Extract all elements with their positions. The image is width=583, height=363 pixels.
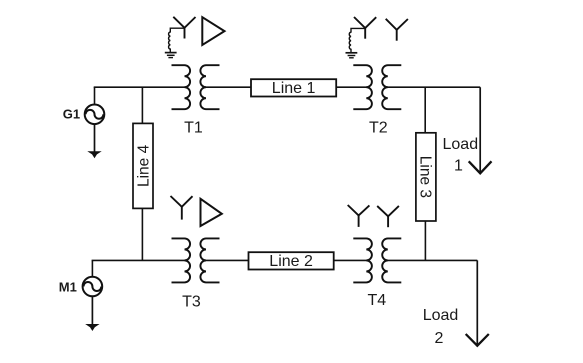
load 2 drop wire bbox=[476, 260, 478, 344]
wire M1 to ground arrow bbox=[91, 296, 93, 325]
line box Line 1 bbox=[251, 79, 336, 97]
node junction Line 4 top bbox=[141, 87, 143, 123]
svg-text:2: 2 bbox=[435, 330, 444, 347]
load 2 arrow bbox=[466, 334, 489, 346]
ground arrow below M1 bbox=[85, 324, 99, 331]
node junction Line 3 top bbox=[424, 87, 426, 133]
generator G1 bbox=[85, 105, 105, 125]
svg-text:M1: M1 bbox=[59, 279, 77, 294]
svg-text:T2: T2 bbox=[369, 120, 388, 137]
line box Line 3 bbox=[416, 133, 436, 221]
wye symbol above T4 (left) bbox=[348, 205, 370, 227]
wire T2 to Load 1 corner bbox=[386, 86, 480, 88]
grounded wye symbol above T2 bbox=[354, 17, 376, 39]
grounding coil above T1 bbox=[169, 28, 185, 52]
wire bottom bus M1 to T3 bbox=[92, 259, 187, 261]
svg-text:Load: Load bbox=[423, 307, 459, 324]
svg-text:G1: G1 bbox=[63, 106, 80, 121]
wire T4 to Load 2 corner bbox=[386, 259, 477, 261]
wye symbol above T4 (right) bbox=[377, 206, 399, 227]
svg-text:T3: T3 bbox=[182, 294, 201, 311]
svg-text:Line 3: Line 3 bbox=[417, 156, 434, 198]
wire Line 2 to T4 bbox=[334, 259, 368, 261]
svg-text:T1: T1 bbox=[184, 120, 203, 137]
earth ground above T1 bbox=[165, 53, 177, 58]
delta symbol above T1 bbox=[202, 17, 224, 45]
svg-text:Line 4: Line 4 bbox=[135, 144, 152, 187]
load 1 arrow bbox=[469, 161, 492, 173]
wire G1 riser to top bus bbox=[94, 87, 96, 104]
wire top bus G1 to T1 bbox=[94, 86, 187, 88]
wye symbol above T2 (right) bbox=[386, 19, 408, 41]
wire G1 to ground arrow bbox=[94, 124, 96, 153]
svg-text:T4: T4 bbox=[367, 292, 386, 309]
wire T3 to Line 2 bbox=[205, 259, 249, 261]
transformer T1 bbox=[172, 65, 220, 109]
motor M1 bbox=[83, 277, 103, 297]
svg-text:Line 1: Line 1 bbox=[272, 80, 316, 97]
svg-text:Line 2: Line 2 bbox=[269, 253, 313, 270]
grounded wye symbol above T1 bbox=[173, 17, 195, 39]
wire Line 1 to T2 bbox=[336, 86, 368, 88]
wire M1 riser to bottom bus bbox=[91, 260, 93, 276]
load 1 drop wire bbox=[479, 87, 481, 172]
wye symbol above T3 bbox=[171, 196, 193, 220]
wire Line 4 bottom riser bbox=[141, 208, 143, 260]
transformer T4 bbox=[353, 238, 401, 282]
wire Line 3 bottom riser bbox=[424, 221, 426, 260]
svg-text:Load: Load bbox=[443, 136, 479, 153]
delta symbol above T3 bbox=[201, 199, 222, 226]
earth ground above T2 bbox=[346, 53, 358, 58]
grounding coil above T2 bbox=[349, 28, 365, 52]
transformer T3 bbox=[172, 238, 220, 282]
wire T1 to Line 1 bbox=[205, 86, 252, 88]
line box Line 2 bbox=[249, 252, 334, 270]
line box Line 4 bbox=[133, 123, 153, 208]
ground arrow below G1 bbox=[87, 151, 101, 158]
svg-text:1: 1 bbox=[454, 158, 463, 175]
transformer T2 bbox=[353, 65, 401, 109]
